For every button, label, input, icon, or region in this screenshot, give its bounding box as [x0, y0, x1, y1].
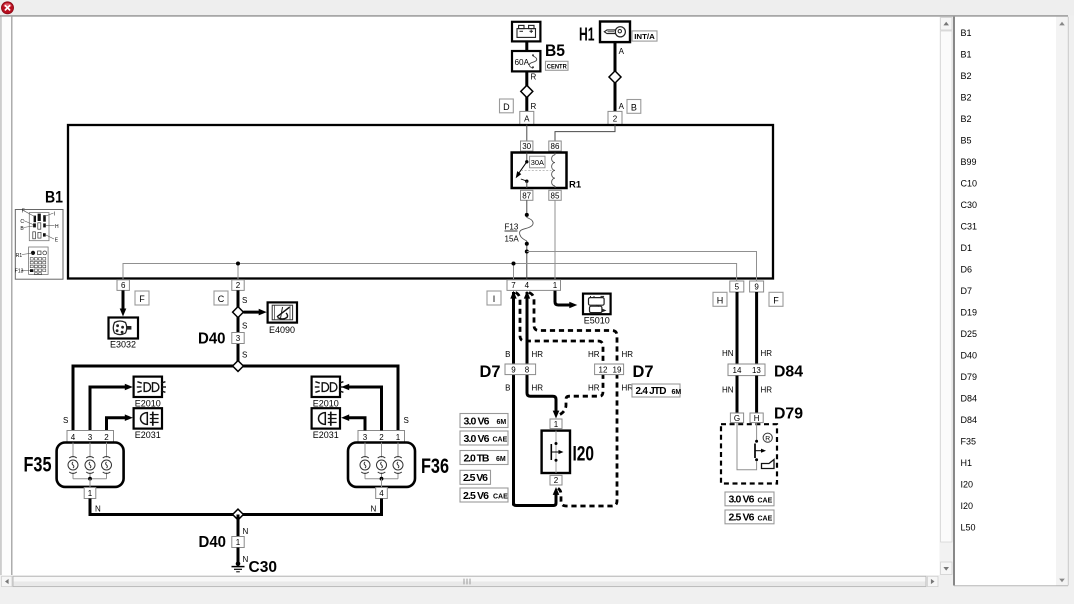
wire battery to fuse B5 — [525, 41, 528, 51]
svg-text:2.4 JTD: 2.4 JTD — [636, 386, 667, 397]
relay pin 86 box — [549, 141, 561, 151]
svg-text:D40: D40 — [199, 534, 227, 551]
svg-text:F13: F13 — [15, 269, 24, 275]
svg-text:B1: B1 — [961, 28, 972, 38]
wire F13 to pin 4 — [526, 241, 528, 279]
svg-text:3: 3 — [363, 433, 368, 442]
junction dot above F13 — [525, 213, 529, 217]
svg-text:F35: F35 — [24, 454, 52, 477]
junction dot at pin 2 drop — [236, 262, 240, 266]
svg-text:3.0 V6: 3.0 V6 — [729, 494, 755, 506]
svg-text:2: 2 — [554, 476, 559, 485]
svg-text:H: H — [55, 224, 59, 230]
F35 pin 1 box — [84, 488, 96, 499]
pin A box — [520, 111, 534, 124]
svg-text:5: 5 — [735, 283, 740, 292]
svg-text:C: C — [218, 294, 225, 304]
svg-text:R1: R1 — [16, 253, 23, 259]
wire HR pin 9 — [757, 292, 773, 364]
svg-text:G: G — [734, 414, 740, 423]
connector D7 left box pins 9 8 — [505, 364, 536, 375]
splice diamond on R wire — [521, 85, 533, 97]
svg-text:B2: B2 — [961, 92, 972, 102]
svg-text:HN: HN — [722, 349, 734, 358]
svg-text:C: C — [20, 219, 24, 225]
wire R from fuse to pin A — [527, 71, 537, 111]
label INT/A — [632, 31, 657, 41]
svg-text:D40: D40 — [198, 331, 226, 348]
svg-text:S: S — [242, 322, 247, 331]
svg-text:D79: D79 — [774, 406, 803, 423]
pin strip 7 4 1 — [507, 280, 561, 291]
svg-text:L50: L50 — [961, 522, 976, 532]
svg-text:E3032: E3032 — [110, 340, 136, 350]
svg-text:B2: B2 — [961, 71, 972, 81]
svg-text:C30: C30 — [249, 559, 278, 576]
lamp cluster F36 — [348, 443, 415, 488]
svg-text:30: 30 — [522, 142, 531, 151]
svg-text:2: 2 — [613, 114, 618, 123]
svg-text:HR: HR — [761, 386, 773, 395]
svg-text:E2031: E2031 — [313, 430, 339, 440]
junction dot at pin 7 drop — [512, 262, 516, 266]
svg-text:S: S — [63, 416, 68, 425]
svg-text:14: 14 — [733, 366, 742, 375]
label I box — [487, 291, 501, 305]
control unit E5010 — [583, 294, 611, 315]
svg-text:I: I — [54, 212, 55, 218]
svg-text:E5010: E5010 — [584, 316, 610, 326]
wire F36 pin2 to E2010 right — [341, 384, 381, 431]
wire relay 87 to fuse F13 — [526, 200, 528, 217]
drop to pin 2 — [237, 264, 239, 280]
junction dot below F13 — [525, 242, 529, 246]
svg-text:F13: F13 — [505, 223, 519, 232]
B1 connector detail — [15, 209, 63, 280]
svg-text:15A: 15A — [505, 235, 520, 244]
svg-text:I: I — [493, 294, 496, 304]
svg-text:2: 2 — [379, 433, 384, 442]
wire F36 pin3 to E2031 right — [341, 414, 365, 430]
F36 pin 4 box — [376, 488, 388, 499]
front fog lamp E2031 (left) — [134, 408, 162, 428]
ground C30 — [232, 562, 245, 572]
label B box — [627, 100, 641, 114]
svg-text:F36: F36 — [421, 455, 449, 478]
svg-text:86: 86 — [551, 142, 560, 151]
svg-text:8: 8 — [525, 365, 530, 374]
svg-text:A: A — [619, 47, 625, 56]
gauge E4090 — [268, 302, 297, 322]
splice diamond to E4090 — [233, 307, 244, 318]
svg-text:D25: D25 — [961, 329, 978, 339]
pin 6 box — [117, 280, 129, 291]
svg-text:I20: I20 — [961, 501, 974, 511]
svg-text:12: 12 — [599, 365, 608, 374]
pin 2 box (panel C) — [232, 280, 244, 291]
svg-text:C10: C10 — [961, 178, 978, 188]
F35 pin strip 4 3 2 — [67, 431, 114, 443]
splice diamond on A wire — [609, 71, 621, 83]
svg-text:1: 1 — [236, 538, 241, 547]
variant label 3.0 V6 CAE (right) — [725, 492, 774, 506]
connector D40 pin 1 box — [232, 537, 244, 548]
svg-text:S: S — [242, 296, 247, 305]
label CENTR — [546, 61, 569, 70]
svg-text:1: 1 — [553, 281, 558, 290]
svg-text:H1: H1 — [961, 458, 973, 468]
svg-text:HN: HN — [722, 386, 734, 395]
svg-text:HR: HR — [532, 384, 544, 393]
svg-text:D40: D40 — [961, 350, 978, 360]
fusebox B1 outline — [68, 125, 773, 279]
fuse B5 60A — [512, 51, 540, 71]
svg-text:CAE: CAE — [493, 437, 508, 444]
variant label 3.0 V6 CAE — [460, 431, 508, 445]
svg-text:E2031: E2031 — [135, 430, 161, 440]
I20 pin 1 box — [550, 419, 562, 429]
svg-text:B5: B5 — [961, 135, 972, 145]
svg-text:B1: B1 — [45, 188, 63, 207]
svg-text:D7: D7 — [633, 363, 654, 381]
drop to pin 7 — [513, 264, 515, 280]
svg-text:C31: C31 — [961, 221, 978, 231]
svg-text:6M: 6M — [497, 419, 507, 426]
label F box (right) — [769, 292, 783, 306]
svg-text:HR: HR — [532, 350, 544, 359]
variant label 2.5 V6 CAE — [460, 488, 508, 502]
pin 9 box — [750, 281, 764, 292]
wire HR pin 4 solid — [524, 291, 560, 419]
svg-text:B99: B99 — [961, 157, 977, 167]
wire F35 pin3 to E2010 — [90, 384, 133, 431]
svg-text:I20: I20 — [961, 479, 974, 489]
main S bus to lamps — [73, 366, 398, 431]
svg-text:A: A — [524, 114, 530, 123]
variant label 3.0 V6 6M — [460, 414, 508, 428]
svg-text:F: F — [22, 209, 25, 215]
svg-text:F35: F35 — [961, 436, 977, 446]
svg-text:CAE: CAE — [493, 494, 508, 501]
svg-text:E2010: E2010 — [135, 398, 161, 408]
relay pin 30 box — [521, 141, 533, 151]
variant label 2.5 V6 CAE (right) — [725, 510, 774, 524]
svg-text:1: 1 — [88, 489, 93, 498]
svg-text:4: 4 — [525, 281, 530, 290]
connector D40 pin 3 box — [232, 333, 244, 344]
wire dashed pin 4 variant — [529, 293, 617, 507]
svg-text:B: B — [505, 350, 510, 359]
svg-text:HR: HR — [622, 350, 634, 359]
svg-text:87: 87 — [522, 191, 531, 200]
svg-text:4: 4 — [379, 489, 384, 498]
svg-text:R: R — [531, 73, 537, 82]
svg-text:1: 1 — [396, 433, 401, 442]
svg-text:N: N — [243, 527, 249, 536]
ignition switch H1 — [600, 22, 630, 43]
svg-text:B2: B2 — [961, 114, 972, 124]
wire F35 pin2 to E2031 — [107, 414, 133, 430]
wire arrow to E4090 — [243, 309, 266, 316]
svg-text:D84: D84 — [961, 393, 978, 403]
relay R1 — [512, 153, 567, 189]
fuse F13 15A — [505, 218, 534, 244]
svg-text:HR: HR — [761, 349, 773, 358]
svg-text:1: 1 — [554, 420, 559, 429]
svg-text:F: F — [139, 294, 145, 304]
wire H1 pin2 to relay pin 86 — [555, 125, 615, 141]
wire S pin 2 down — [238, 290, 247, 366]
svg-text:HR: HR — [588, 350, 600, 359]
svg-text:CAE: CAE — [758, 497, 773, 504]
svg-text:R: R — [765, 436, 770, 443]
svg-text:3: 3 — [236, 334, 241, 343]
svg-text:D79: D79 — [961, 372, 978, 382]
svg-text:INT/A: INT/A — [634, 32, 655, 41]
svg-text:3.0 V6: 3.0 V6 — [464, 433, 490, 445]
svg-text:S: S — [242, 351, 247, 360]
variant label 2.5 V6 — [460, 470, 491, 484]
splice diamond on S bus — [233, 361, 244, 372]
connector D84 box pins 14 13 — [728, 364, 765, 376]
lamp E3032 — [109, 318, 139, 339]
svg-text:2.5 V6: 2.5 V6 — [463, 472, 488, 484]
svg-text:3.0 V6: 3.0 V6 — [464, 415, 490, 427]
wire solid to I20 pin 2 — [514, 487, 560, 506]
svg-text:2.0 TB: 2.0 TB — [464, 452, 490, 464]
svg-text:E4090: E4090 — [269, 325, 295, 335]
svg-text:D1: D1 — [961, 243, 973, 253]
svg-text:D19: D19 — [961, 307, 978, 317]
lamp cluster F35 — [57, 443, 124, 488]
svg-text:D84: D84 — [774, 363, 803, 380]
wire relay 85 to pin 1 — [554, 200, 556, 279]
svg-text:S: S — [404, 416, 409, 425]
svg-text:C30: C30 — [961, 200, 978, 210]
wire HR D84 to H — [757, 376, 773, 413]
component list items — [961, 28, 978, 533]
svg-text:HR: HR — [588, 384, 600, 393]
junction dot F13 to bus — [525, 250, 529, 254]
svg-text:D7: D7 — [961, 286, 973, 296]
svg-text:7: 7 — [511, 281, 516, 290]
pin G box — [730, 413, 743, 423]
svg-text:D84: D84 — [961, 415, 978, 425]
svg-text:60A: 60A — [515, 58, 530, 67]
horizontal scrollbar — [1, 576, 940, 588]
variant label 2.0 TB 6M — [460, 451, 508, 465]
svg-text:4: 4 — [71, 433, 76, 442]
wire labels HR at D7 right — [588, 350, 633, 393]
svg-text:9: 9 — [754, 283, 759, 292]
splice diamond on N bus — [233, 509, 244, 520]
svg-text:D: D — [503, 102, 510, 112]
label 2.4 JTD 6M — [632, 384, 681, 397]
svg-text:E2010: E2010 — [313, 398, 339, 408]
battery — [512, 22, 540, 42]
pin 2 box (H1 feed) — [608, 111, 622, 124]
svg-text:19: 19 — [613, 365, 622, 374]
svg-text:30A: 30A — [531, 158, 544, 167]
wire A from H1 to pin 2 — [615, 42, 625, 111]
svg-text:2.5 V6: 2.5 V6 — [729, 512, 755, 524]
switch I20 — [542, 431, 570, 473]
internal bus wire to pin 9 — [527, 252, 757, 282]
svg-text:H1: H1 — [579, 24, 595, 45]
svg-text:D6: D6 — [961, 264, 973, 274]
diagram vertical scrollbar — [940, 17, 954, 575]
label H box — [713, 292, 727, 306]
relay pin 87 box — [521, 190, 533, 200]
wire HN D84 to G — [722, 376, 737, 413]
label F box (left) — [135, 291, 149, 305]
svg-text:6: 6 — [121, 281, 126, 290]
svg-text:6M: 6M — [672, 389, 682, 396]
component list panel — [954, 17, 1068, 586]
svg-text:I20: I20 — [573, 443, 595, 466]
wire pin A to relay pin 30 — [526, 125, 528, 141]
F36 pin strip 3 2 1 — [358, 431, 405, 443]
svg-text:9: 9 — [511, 365, 516, 374]
svg-text:CENTR: CENTR — [547, 63, 567, 70]
pin 5 box — [730, 281, 744, 292]
svg-text:D7: D7 — [480, 363, 501, 381]
wire pin 1 to E5010 — [555, 291, 577, 309]
svg-text:6M: 6M — [496, 456, 506, 463]
svg-text:N: N — [371, 505, 377, 514]
svg-text:B: B — [631, 102, 637, 112]
svg-text:3: 3 — [88, 433, 93, 442]
svg-text:R1: R1 — [569, 180, 582, 191]
svg-text:F: F — [773, 295, 779, 305]
close button — [2, 2, 14, 14]
svg-text:N: N — [95, 505, 101, 514]
svg-text:H: H — [754, 414, 760, 423]
wire pin 6 to E3032 — [120, 290, 127, 316]
high beam lamp E2010 (right) — [312, 377, 344, 397]
wire dashed pin 7 variant — [516, 293, 604, 415]
svg-text:CAE: CAE — [758, 515, 773, 522]
svg-text:B1: B1 — [961, 49, 972, 59]
svg-text:A: A — [619, 102, 625, 111]
svg-text:2: 2 — [236, 281, 241, 290]
pin H box — [750, 413, 763, 423]
svg-text:R: R — [531, 102, 537, 111]
relay module D79 dashed box — [721, 423, 777, 484]
relay pin 85 box — [549, 190, 561, 200]
svg-text:85: 85 — [551, 191, 560, 200]
wire N to D40 pin 1 — [238, 515, 249, 537]
svg-text:B5: B5 — [545, 42, 565, 60]
internal bus wire pins 6-2-7-5 — [123, 264, 737, 282]
front fog lamp E2031 (right) — [312, 408, 340, 428]
svg-text:B: B — [505, 384, 510, 393]
I20 pin 2 box — [550, 475, 562, 485]
svg-text:2.5 V6: 2.5 V6 — [463, 490, 489, 502]
label D box — [500, 99, 514, 113]
label C box — [214, 291, 228, 305]
wire B pin 7 solid — [505, 291, 517, 506]
wire D40 to ground — [238, 548, 249, 565]
svg-text:2: 2 — [104, 433, 109, 442]
wire HN pin 5 — [722, 292, 737, 364]
connector D7 right box pins 12 19 — [595, 364, 624, 375]
ground N bus — [90, 499, 382, 515]
svg-text:H: H — [717, 295, 724, 305]
high beam lamp E2010 (left) — [134, 377, 166, 397]
svg-text:13: 13 — [752, 366, 761, 375]
